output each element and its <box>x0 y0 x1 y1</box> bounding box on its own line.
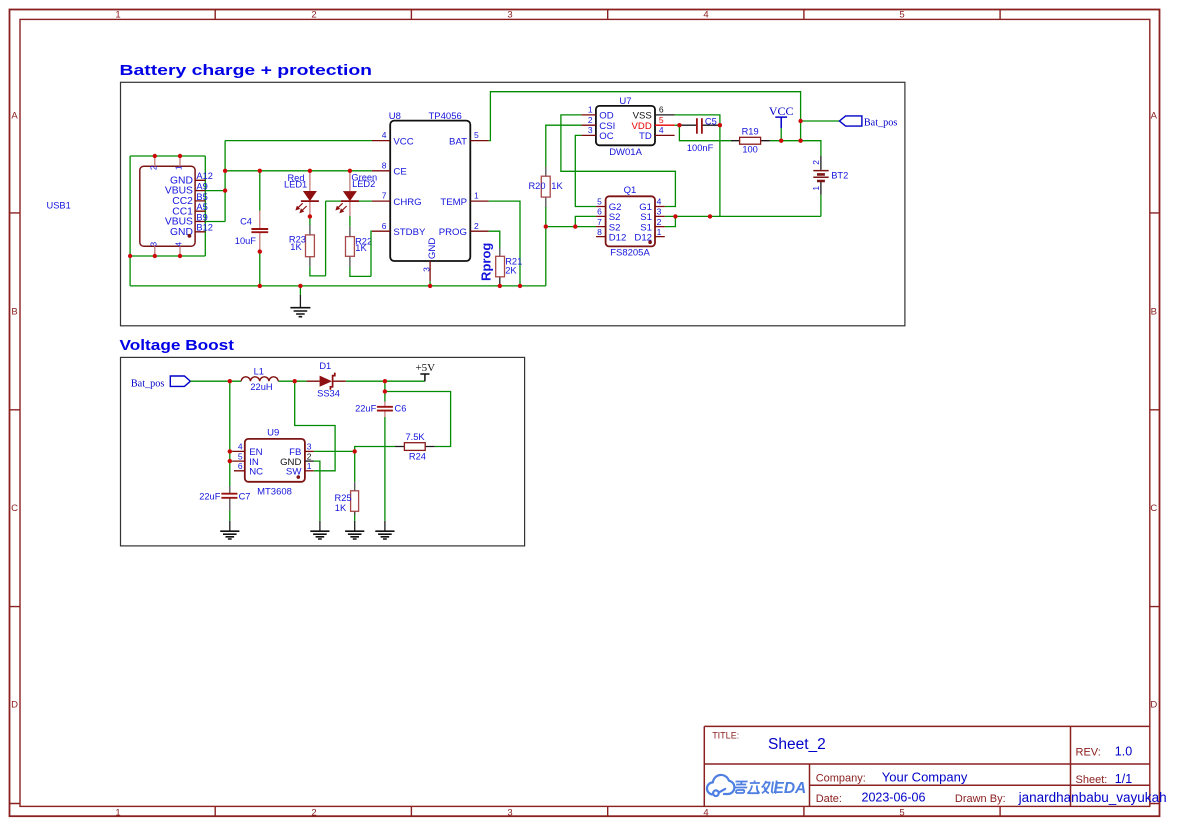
svg-text:1K: 1K <box>290 242 302 252</box>
junction (229.8,381.2) <box>228 379 232 383</box>
svg-text:1: 1 <box>115 10 120 21</box>
wire S2 net <box>546 216 596 226</box>
ground (battery section) <box>290 286 310 317</box>
svg-text:R24: R24 <box>409 452 426 462</box>
ground (C6) <box>375 521 394 539</box>
svg-text:5: 5 <box>659 115 664 125</box>
svg-text:1: 1 <box>657 227 662 237</box>
wire U8 GND pin to bus <box>429 281 431 286</box>
svg-text:4: 4 <box>703 807 708 818</box>
svg-text:OC: OC <box>599 131 613 142</box>
svg-text:2: 2 <box>311 807 316 818</box>
svg-text:6: 6 <box>238 461 243 471</box>
svg-text:3: 3 <box>657 207 662 217</box>
svg-text:2: 2 <box>311 10 316 21</box>
JLCEDA logo <box>707 775 734 796</box>
junction (259.8,170.8) <box>258 169 262 173</box>
svg-text:5: 5 <box>474 130 479 140</box>
svg-text:1: 1 <box>115 807 120 818</box>
svg-text:C: C <box>1150 503 1157 514</box>
svg-text:A5: A5 <box>196 202 207 212</box>
junction (349.9,170.8) <box>348 169 352 173</box>
svg-text:C: C <box>11 503 18 514</box>
svg-text:D: D <box>11 700 18 711</box>
svg-text:GND: GND <box>427 238 438 259</box>
svg-text:A: A <box>1151 111 1158 122</box>
IC U8 TP4056 <box>372 111 489 281</box>
junction (499.8,285.9) <box>498 284 502 288</box>
svg-text:2: 2 <box>149 165 159 170</box>
junction (545.8,226.6) <box>544 224 548 228</box>
svg-text:4: 4 <box>174 242 184 247</box>
svg-text:3: 3 <box>307 442 312 452</box>
svg-text:+5V: +5V <box>415 362 435 374</box>
ground (U9 GND) <box>310 521 329 539</box>
wire CE net <box>225 170 372 172</box>
svg-text:R25: R25 <box>335 493 352 503</box>
svg-text:Battery charge + protection: Battery charge + protection <box>120 62 373 79</box>
svg-text:Bat_pos: Bat_pos <box>131 378 164 389</box>
power flag +5V <box>415 362 435 381</box>
svg-text:FS8205A: FS8205A <box>610 248 650 259</box>
wire BAT to Bat_pos / BT2 <box>489 92 801 141</box>
wire C7 / EN / IN riser <box>230 381 233 521</box>
junction (575.3,226.6) <box>573 224 577 228</box>
svg-text:2: 2 <box>811 160 821 165</box>
resistor R20 <box>528 167 563 208</box>
svg-text:BAT: BAT <box>449 136 467 147</box>
wire OD to G1 <box>561 115 676 207</box>
power flag VCC <box>769 104 794 141</box>
svg-text:B: B <box>1151 307 1157 318</box>
svg-text:4: 4 <box>703 10 708 21</box>
svg-text:LED1: LED1 <box>284 180 307 190</box>
svg-text:2: 2 <box>588 115 593 125</box>
junction (180,256) <box>178 254 182 258</box>
svg-text:1K: 1K <box>355 243 367 253</box>
USB connector USB1 <box>47 156 213 256</box>
svg-text:1K: 1K <box>335 503 347 513</box>
svg-text:A12: A12 <box>196 171 213 181</box>
junction (180,156) <box>178 154 182 158</box>
svg-text:C5: C5 <box>705 116 717 126</box>
svg-text:LED2: LED2 <box>352 179 375 189</box>
battery section box <box>121 82 905 325</box>
svg-text:MT3608: MT3608 <box>257 487 292 498</box>
battery BT2 <box>811 156 848 195</box>
junction (154.8,256) <box>153 254 157 258</box>
svg-text:1K: 1K <box>551 181 563 191</box>
svg-text:janardhanbabu_vayukah: janardhanbabu_vayukah <box>1018 790 1167 805</box>
resistor R23 <box>289 217 315 267</box>
junction (781.2,140.7) <box>779 139 783 143</box>
svg-text:Date:: Date: <box>816 793 842 805</box>
wire Bat_pos to L1 to D1 to +5V <box>190 380 425 382</box>
voltage boost section box <box>121 357 525 546</box>
junction (300.4,285.9) <box>298 284 302 288</box>
wire U9 GND to ground <box>314 461 320 521</box>
svg-text:2: 2 <box>474 221 479 231</box>
wire VCC net (USB to U8 pin4) <box>205 141 372 222</box>
junction (710,216.4) <box>708 214 712 218</box>
svg-text:5: 5 <box>238 451 243 461</box>
svg-text:R20: R20 <box>528 181 545 191</box>
diode D1 SS34 <box>307 361 346 399</box>
svg-text:USB1: USB1 <box>47 201 71 211</box>
svg-text:7: 7 <box>382 191 387 201</box>
svg-text:Rprog: Rprog <box>479 243 494 281</box>
junction (309.9,170.8) <box>308 169 312 173</box>
svg-text:6: 6 <box>659 105 664 115</box>
svg-text:SW: SW <box>286 467 302 478</box>
svg-text:5: 5 <box>597 197 602 207</box>
resistor R25 <box>335 482 359 515</box>
wire Bat_pos branch <box>801 120 840 122</box>
junction (154.8,156) <box>153 154 157 158</box>
svg-text:Bat_pos: Bat_pos <box>864 117 897 128</box>
resistor R24 <box>395 432 435 462</box>
svg-text:R19: R19 <box>742 126 759 136</box>
junction (130.1,256) <box>128 254 132 258</box>
svg-text:BT2: BT2 <box>831 170 848 180</box>
wire CHRG net <box>310 201 372 276</box>
junction (675.4,216.4) <box>673 214 677 218</box>
svg-text:U8: U8 <box>389 111 401 122</box>
svg-text:1: 1 <box>174 165 184 170</box>
svg-text:U9: U9 <box>267 428 279 439</box>
svg-text:Q1: Q1 <box>624 185 637 196</box>
junction (229.8,461.1) <box>228 459 232 463</box>
svg-text:Sheet:: Sheet: <box>1076 774 1108 786</box>
junction (719.9,125.2) <box>718 123 722 127</box>
svg-text:1.0: 1.0 <box>1115 744 1132 758</box>
svg-text:4: 4 <box>659 125 664 135</box>
resistor R21 <box>496 248 523 286</box>
capacitor C5 <box>679 116 720 152</box>
svg-text:C4: C4 <box>240 217 252 227</box>
ground (C7) <box>220 521 239 539</box>
wire R20 to CSI <box>546 125 582 226</box>
ground (R25) <box>345 521 364 539</box>
svg-text:A: A <box>11 111 18 122</box>
transistor Q1 FS8205A <box>596 185 665 259</box>
svg-text:D: D <box>1150 700 1157 711</box>
svg-text:1: 1 <box>307 461 312 471</box>
junction (384.9,381.2) <box>383 379 387 383</box>
svg-text:3: 3 <box>149 242 159 247</box>
svg-text:L1: L1 <box>254 367 264 377</box>
wire VBUS ring around USB1 <box>130 156 205 256</box>
wire R25 riser <box>354 451 356 521</box>
svg-text:CE: CE <box>393 167 406 178</box>
wire R19 to VCC and BT2 <box>770 141 821 156</box>
svg-text:B: B <box>11 307 17 318</box>
svg-text:CHRG: CHRG <box>393 197 421 208</box>
svg-text:1: 1 <box>474 191 479 201</box>
svg-text:2: 2 <box>657 217 662 227</box>
inductor L1 <box>241 367 278 392</box>
resistor R22 <box>346 216 373 267</box>
wire OC to G2 <box>575 135 596 206</box>
svg-text:D1: D1 <box>319 361 331 371</box>
svg-text:Your Company: Your Company <box>882 770 968 785</box>
svg-text:C6: C6 <box>395 403 407 413</box>
svg-text:1/1: 1/1 <box>1115 772 1132 786</box>
junction (259.8,251.6) <box>258 249 262 253</box>
svg-text:SS34: SS34 <box>317 388 340 398</box>
wire FB net <box>314 381 451 451</box>
svg-text:Sheet_2: Sheet_2 <box>768 736 826 753</box>
svg-text:NC: NC <box>249 467 263 478</box>
svg-text:B9: B9 <box>196 212 207 222</box>
svg-text:5: 5 <box>899 10 904 21</box>
wire C6 riser <box>384 392 386 521</box>
title block <box>704 726 1150 806</box>
svg-text:7.5K: 7.5K <box>405 432 425 442</box>
svg-text:8: 8 <box>382 160 387 170</box>
wire VDD to R19 <box>679 125 731 141</box>
svg-text:1: 1 <box>588 105 593 115</box>
svg-text:8: 8 <box>597 227 602 237</box>
junction (384.9,391.5) <box>383 389 387 393</box>
LED LED2 (Green) <box>336 171 377 216</box>
wire STDBY net <box>350 231 372 276</box>
svg-text:2023-06-06: 2023-06-06 <box>862 791 926 805</box>
capacitor C7 <box>199 486 250 510</box>
net flag Bat_pos (battery section) <box>839 116 897 128</box>
svg-text:3: 3 <box>422 267 432 272</box>
svg-text:4: 4 <box>238 442 243 452</box>
svg-text:TITLE:: TITLE: <box>712 730 739 740</box>
svg-text:1: 1 <box>811 186 821 191</box>
svg-text:Voltage Boost: Voltage Boost <box>120 337 235 354</box>
svg-text:U7: U7 <box>619 96 631 107</box>
svg-text:REV:: REV: <box>1076 746 1101 758</box>
junction (679.4,125.2) <box>677 123 681 127</box>
wire TEMP net <box>489 201 520 286</box>
svg-text:B12: B12 <box>196 223 213 233</box>
svg-text:3: 3 <box>507 807 512 818</box>
svg-text:100nF: 100nF <box>687 143 714 153</box>
svg-text:STDBY: STDBY <box>393 227 426 238</box>
svg-text:TD: TD <box>639 131 652 142</box>
svg-text:D12: D12 <box>609 232 627 243</box>
junction (259.8,285.9) <box>258 284 262 288</box>
svg-text:3: 3 <box>507 10 512 21</box>
svg-text:4: 4 <box>382 130 387 140</box>
svg-text:Company:: Company: <box>816 773 866 785</box>
svg-text:6: 6 <box>597 207 602 217</box>
capacitor C6 <box>355 402 406 418</box>
svg-text:3: 3 <box>588 125 593 135</box>
svg-text:5: 5 <box>899 807 904 818</box>
wire SW loop <box>295 381 335 471</box>
wire GND bus (bottom) <box>130 227 546 286</box>
svg-text:Drawn By:: Drawn By: <box>955 793 1006 805</box>
IC U7 DW01A <box>581 96 674 158</box>
svg-text:TP4056: TP4056 <box>429 111 462 122</box>
junction (229.8,451.4) <box>228 449 232 453</box>
svg-text:A9: A9 <box>196 182 207 192</box>
junction (354.7,451.4) <box>353 449 357 453</box>
junction (225.1,170.8) <box>223 169 227 173</box>
capacitor C4 <box>235 171 268 286</box>
svg-text:7: 7 <box>597 217 602 227</box>
svg-text:VCC: VCC <box>393 136 413 147</box>
net flag Bat_pos (boost section) <box>131 376 191 389</box>
svg-text:TEMP: TEMP <box>440 197 467 208</box>
junction (309.9,216.5) <box>308 214 312 218</box>
svg-text:B5: B5 <box>196 192 207 202</box>
svg-text:PROG: PROG <box>439 227 467 238</box>
junction (225.1,190.6) <box>223 188 227 192</box>
junction (800.6,121) <box>798 119 802 123</box>
IC U9 MT3608 <box>232 428 313 498</box>
wire VSS to C5 <box>675 115 720 125</box>
junction (800.6,140.7) <box>798 139 802 143</box>
wire S1 net <box>665 125 821 226</box>
LED LED1 (Red) <box>284 171 319 217</box>
svg-text:22uF: 22uF <box>199 492 221 502</box>
wire PROG net <box>489 231 500 247</box>
resistor R19 <box>731 126 770 154</box>
svg-text:22uF: 22uF <box>355 403 377 413</box>
svg-text:2K: 2K <box>505 265 517 275</box>
junction (430.1,285.9) <box>428 284 432 288</box>
junction (520,285.9) <box>518 284 522 288</box>
svg-text:EDA: EDA <box>774 780 807 797</box>
svg-text:DW01A: DW01A <box>609 147 642 158</box>
junction (294.7,381.2) <box>293 379 297 383</box>
svg-text:VCC: VCC <box>769 104 794 118</box>
svg-text:6: 6 <box>382 221 387 231</box>
svg-text:C7: C7 <box>239 492 251 502</box>
svg-text:2: 2 <box>307 451 312 461</box>
svg-text:100: 100 <box>742 144 758 154</box>
svg-text:10uF: 10uF <box>235 236 257 246</box>
svg-text:22uH: 22uH <box>250 382 272 392</box>
svg-text:4: 4 <box>657 197 662 207</box>
